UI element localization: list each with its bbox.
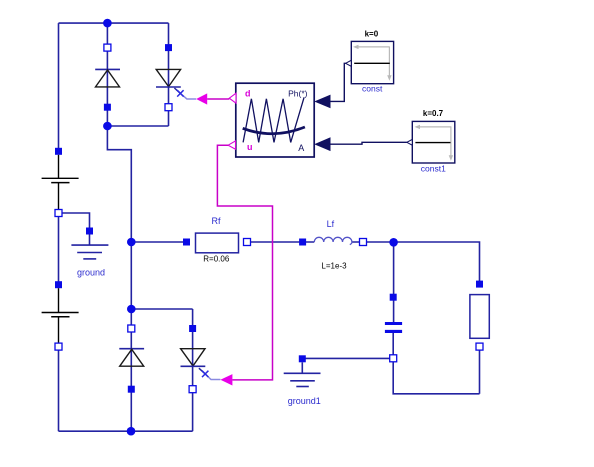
battery V2 — [42, 281, 79, 350]
wire capacitor to ground1 — [302, 357, 393, 359]
svg-text:L=1e-3: L=1e-3 — [321, 261, 347, 270]
pin const output chevron — [346, 60, 352, 66]
wire capacitor to bottom corner — [393, 333, 479, 394]
wire Rf to Lf — [247, 241, 303, 243]
arrow gate2 — [220, 374, 232, 385]
wire thyristor1 branch vertical — [168, 23, 170, 126]
svg-text:k=0.7: k=0.7 — [423, 109, 444, 118]
wire fire to arrow1 — [207, 98, 229, 100]
wire capacitor branch — [393, 242, 395, 322]
svg-text:u: u — [247, 142, 253, 152]
svg-text:A: A — [298, 143, 304, 153]
svg-text:Lf: Lf — [327, 219, 335, 229]
node lower bridge junction — [103, 122, 112, 131]
pin u input chevron — [228, 141, 235, 149]
op block firing U1 — [236, 83, 314, 157]
wire load bottom — [479, 347, 481, 394]
arrow gate1 — [196, 93, 207, 104]
wire const to phi input — [331, 63, 346, 101]
diode D2 — [119, 325, 144, 393]
battery V1 — [42, 148, 79, 217]
svg-text:const1: const1 — [421, 164, 446, 174]
wire left battery column upper — [58, 23, 60, 151]
inductor Lf — [299, 219, 366, 270]
svg-text:ground1: ground1 — [288, 396, 321, 406]
wire diode2 vertical — [130, 309, 132, 431]
wire const1 to A input — [331, 142, 407, 144]
wire battery1 to ground — [59, 213, 90, 231]
ground1 — [284, 355, 321, 406]
wire left battery column middle — [58, 213, 60, 285]
pin fire output chevron — [229, 93, 236, 103]
wire middle bus to Rf — [131, 241, 186, 243]
svg-text:Ph(*): Ph(*) — [288, 88, 308, 98]
wire top bus — [59, 22, 169, 24]
pin const1 output chevron — [407, 139, 413, 145]
wire jog to middle bus — [107, 126, 131, 309]
node middle bus junction — [127, 238, 136, 247]
svg-text:d: d — [245, 89, 251, 99]
wire Lf to load corner — [363, 242, 480, 284]
wire lower bridge horizontal — [107, 125, 168, 127]
node Lf output junction — [389, 238, 398, 247]
pin phi input arrow — [314, 95, 330, 109]
node bottom bus junction — [127, 427, 136, 436]
wire thyristor2 vertical — [192, 309, 194, 431]
resistor load R1 — [470, 281, 489, 351]
capacitor C1 — [385, 294, 402, 362]
resistor Rf — [183, 216, 251, 263]
svg-text:R=0.06: R=0.06 — [203, 254, 230, 263]
wire bottom bus — [59, 430, 193, 432]
wire u to gate2 magenta — [217, 145, 272, 380]
node lower branch junction — [127, 305, 136, 314]
pin A input arrow — [314, 137, 330, 151]
node top junction — [103, 19, 112, 28]
svg-text:Rf: Rf — [212, 216, 221, 226]
block const — [351, 30, 393, 94]
svg-text:ground: ground — [77, 268, 105, 278]
block const1 — [412, 109, 455, 174]
svg-text:k=0: k=0 — [365, 30, 379, 39]
wire diode1 branch vertical — [106, 23, 108, 126]
thyristor Q1 — [156, 44, 196, 111]
diode D1 — [95, 44, 120, 111]
wire left battery column lower — [58, 347, 60, 432]
thyristor Q2 — [181, 325, 221, 393]
wire lower branch split horizontal — [131, 308, 192, 310]
svg-text:const: const — [362, 84, 383, 94]
ground — [71, 228, 108, 278]
